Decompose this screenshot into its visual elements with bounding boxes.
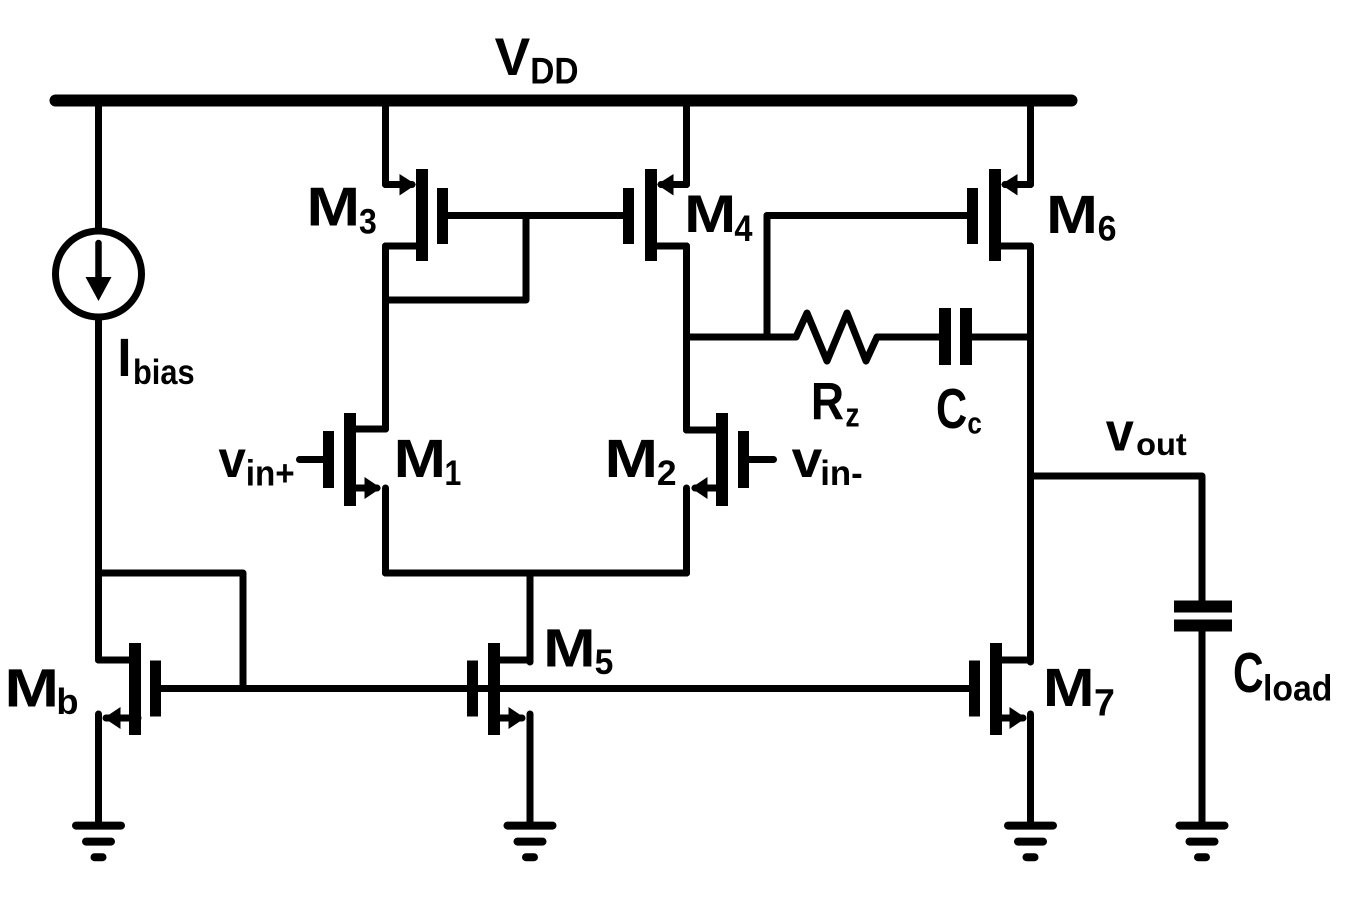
svg-text:2: 2 (657, 453, 677, 493)
wire: vout (1031, 476, 1203, 602)
transistor M5 (467, 643, 530, 823)
transistor M7 (969, 643, 1031, 823)
transistor M4 (623, 104, 687, 261)
ground (M7) (1008, 826, 1053, 858)
wire: Cc to M6 drain (972, 334, 1031, 341)
wire: rail to Ibias (95, 100, 102, 231)
resistor Rz (796, 313, 877, 361)
wire: bias node to Mb gate (diode connection) (99, 573, 244, 689)
ground (Mb) (76, 826, 121, 858)
wire: tail line M1-M2 sources (386, 570, 687, 577)
svg-text:M: M (1046, 185, 1098, 245)
wire: M6 gate lead (767, 212, 967, 219)
svg-text:v: v (792, 430, 823, 488)
wire: M4/M2 drains (683, 246, 690, 430)
svg-text:M: M (1043, 658, 1095, 718)
svg-text:7: 7 (1094, 682, 1115, 724)
wire: first stage output to Rz (687, 334, 797, 341)
svg-text:DD: DD (530, 51, 578, 92)
svg-text:M: M (543, 619, 596, 679)
svg-text:6: 6 (1098, 210, 1117, 249)
wire: Cload to ground (1199, 630, 1206, 823)
svg-text:b: b (56, 682, 78, 722)
svg-text:M: M (4, 658, 59, 718)
svg-text:V: V (495, 28, 531, 87)
ground (Cload) (1180, 826, 1225, 858)
wire: M3 gate to M4 gate (448, 212, 623, 219)
wire: Rz to Cc (877, 334, 939, 341)
transistor M6 (967, 104, 1031, 261)
svg-text:5: 5 (595, 642, 614, 682)
svg-text:in-: in- (820, 454, 863, 493)
wire: M6 gate down to compensation node (764, 216, 771, 338)
wire: gate bus Mb-M5-M7 (161, 685, 969, 692)
wire: M3 diode connection (386, 216, 527, 301)
wire: Ibias to Mb drain (95, 317, 102, 660)
transistor M3 (386, 104, 449, 429)
transistor M1 (300, 413, 386, 573)
transistor M2 (687, 413, 774, 573)
wire: tail to M5 drain (527, 573, 534, 662)
svg-text:M: M (306, 177, 360, 238)
current source Ibias (56, 231, 142, 317)
svg-text:R: R (811, 373, 844, 432)
svg-text:out: out (1136, 427, 1187, 462)
wire: M6 drain down to M7 (1027, 246, 1034, 662)
svg-text:1: 1 (445, 453, 462, 493)
svg-text:M: M (394, 429, 446, 489)
svg-text:v: v (1106, 401, 1134, 463)
ground (M5) (508, 826, 553, 858)
svg-text:C: C (1233, 641, 1264, 704)
svg-text:bias: bias (133, 353, 195, 392)
svg-text:load: load (1263, 667, 1332, 708)
svg-text:z: z (845, 396, 859, 434)
svg-text:C: C (936, 377, 967, 440)
svg-text:in+: in+ (246, 453, 295, 493)
svg-text:M: M (605, 429, 659, 489)
VDD rail (56, 95, 1072, 107)
svg-text:v: v (219, 431, 246, 489)
capacitor Cload (1174, 601, 1232, 632)
capacitor Cc (939, 308, 972, 365)
svg-text:M: M (684, 185, 736, 244)
svg-text:c: c (967, 406, 982, 441)
svg-text:I: I (117, 328, 131, 388)
svg-text:3: 3 (359, 203, 377, 242)
svg-text:4: 4 (734, 207, 752, 249)
transistor Mb (99, 643, 162, 823)
